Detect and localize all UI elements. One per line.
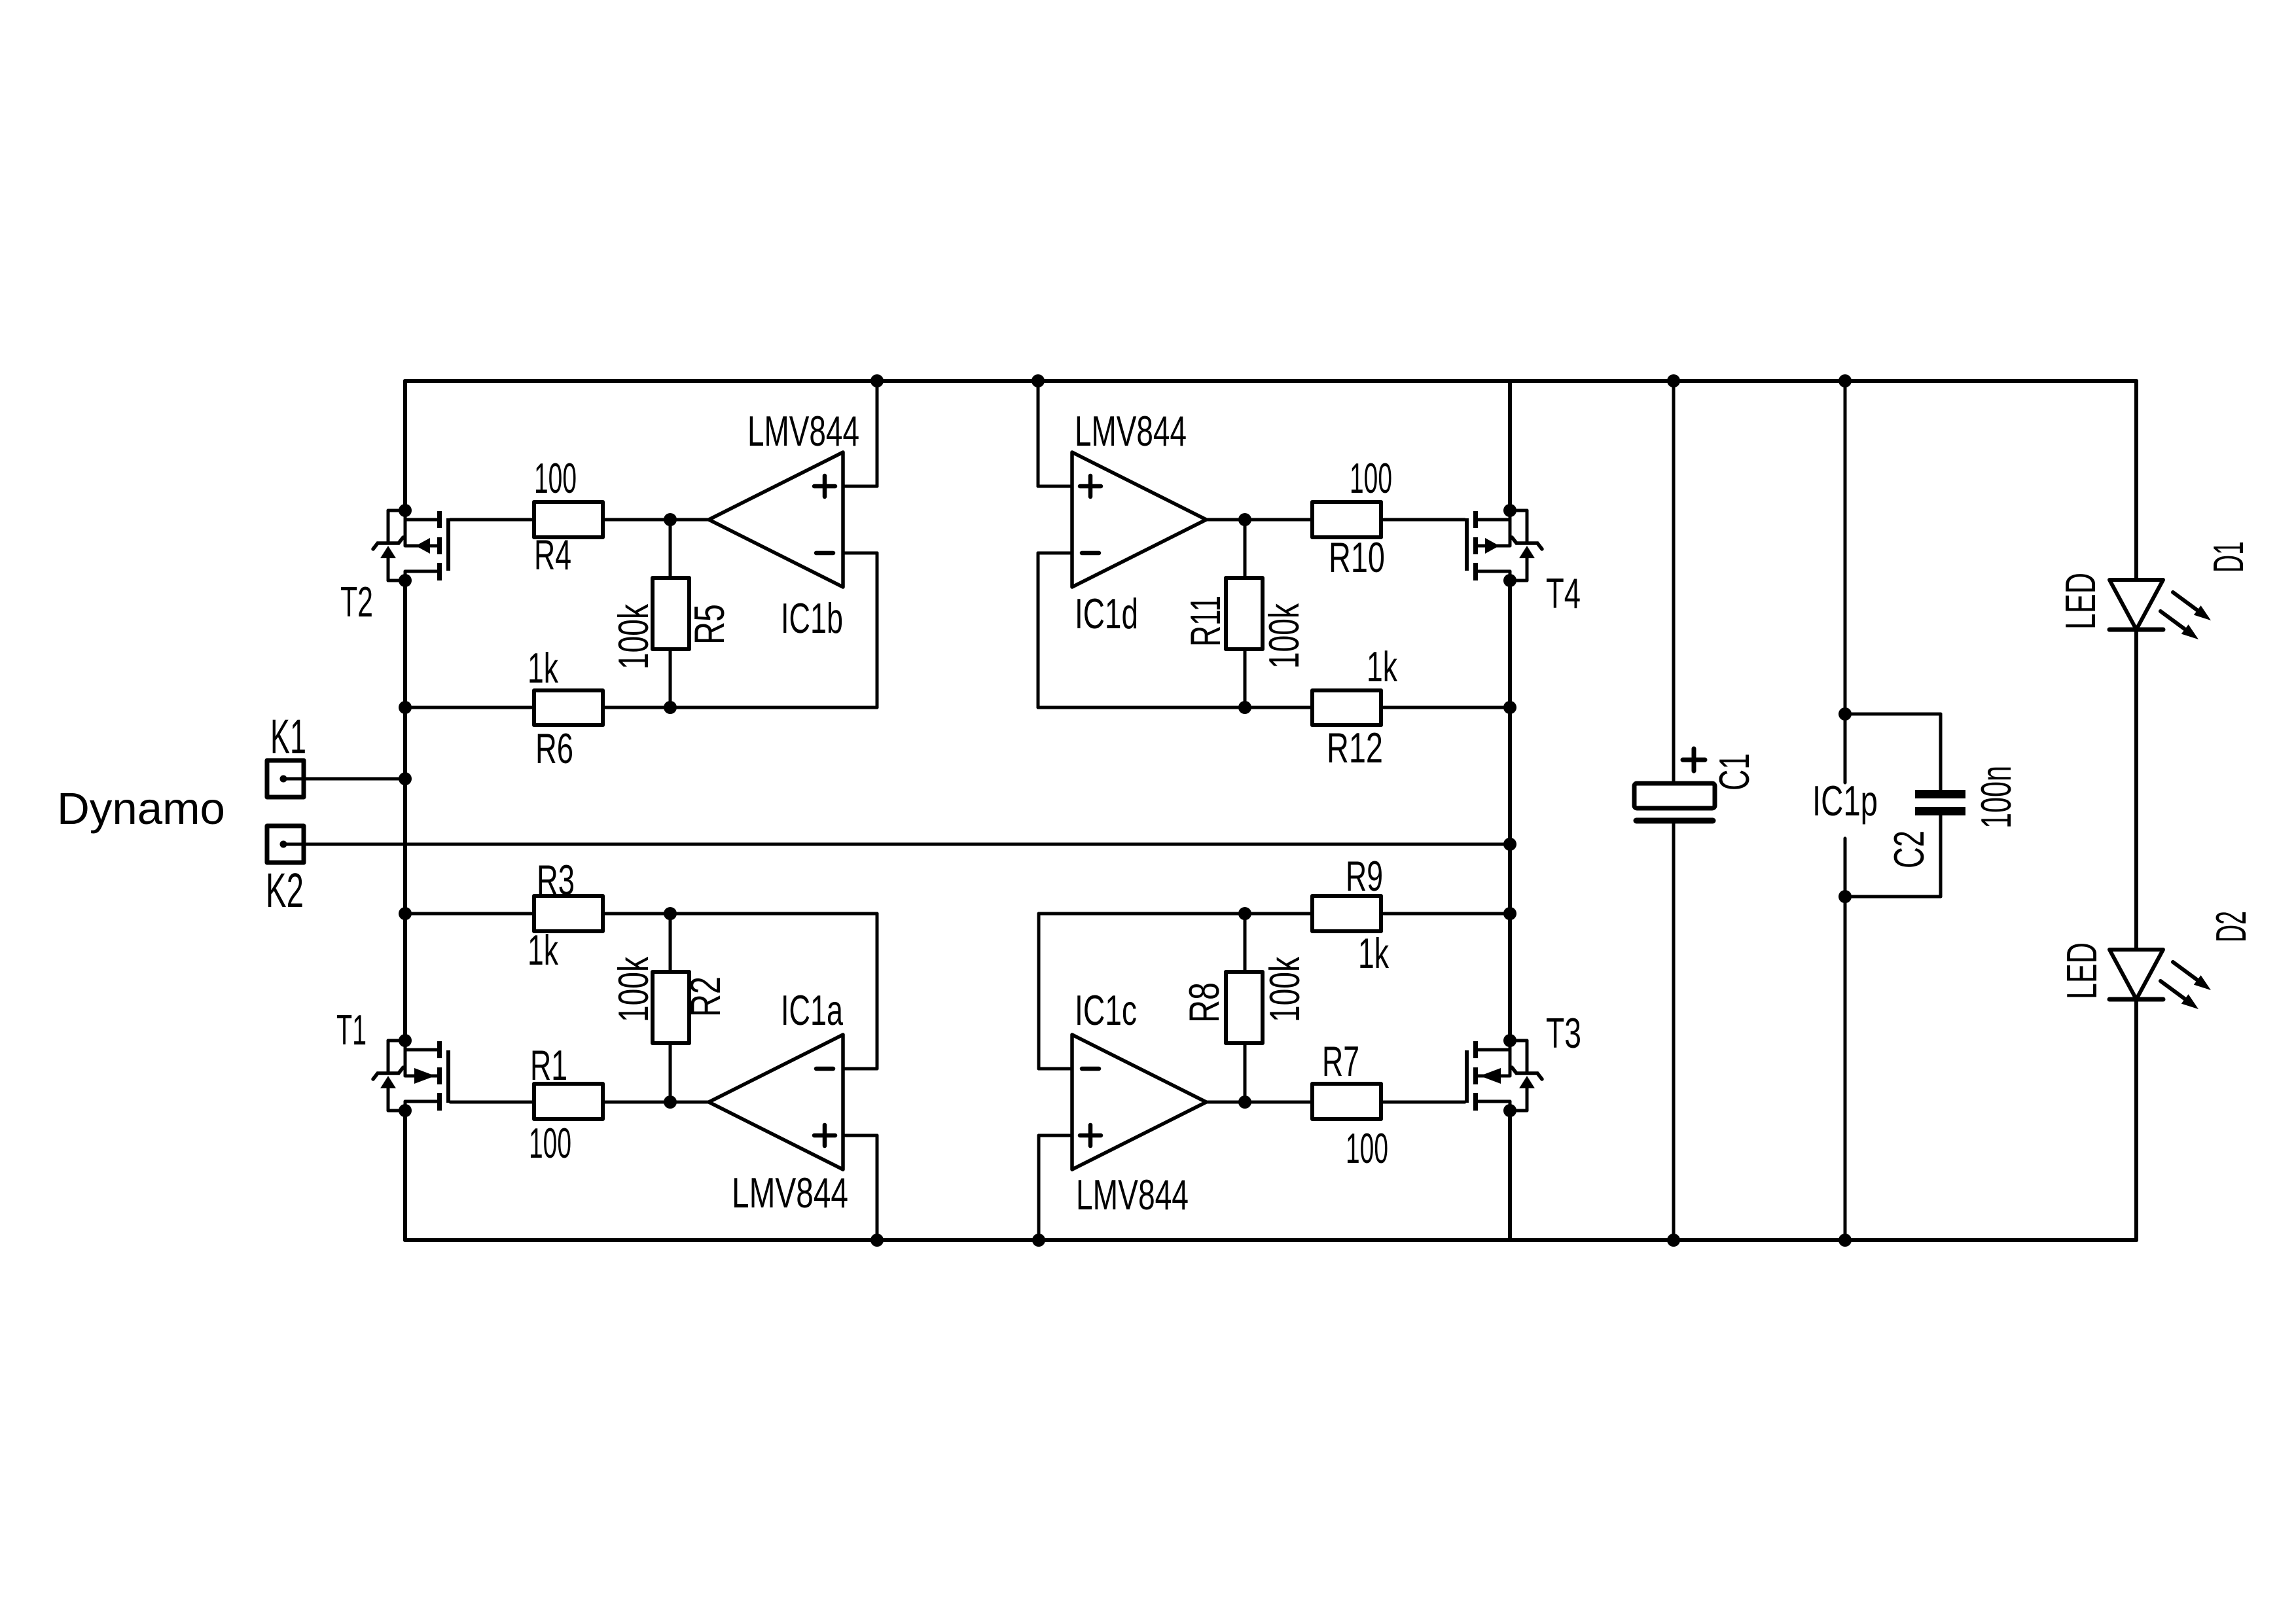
label R12 [1327,724,1383,772]
label R7 value 100 [1346,1124,1388,1172]
label C2 value 100n [1972,766,2020,829]
wire C2 bottom branch [1845,895,1941,899]
label R10 [1329,533,1385,581]
node T4 source dot [1503,574,1516,587]
label D2 [2207,911,2255,942]
svg-text:C1: C1 [1710,753,1758,791]
label R4 [534,531,571,579]
resistor R8 [1226,972,1263,1043]
node T3 drain dot [1503,1034,1516,1047]
wire IC1c inverting to R9 row [1037,914,1041,1069]
label T1 [336,1006,367,1054]
wire IC1a inverting to R3 row [876,914,879,1069]
wire right column middle segment (T4 to T3, AC node K2) [1508,580,1512,1041]
wire IC1c noninverting pin [1039,1134,1072,1137]
node T2 drain dot [399,504,412,517]
wire right column lower segment (T3 to bottom rail) [1508,1111,1512,1240]
svg-text:T3: T3 [1546,1009,1581,1057]
node K2 junction on right column [1503,838,1516,851]
svg-text:IC1c: IC1c [1075,986,1137,1034]
wire R4 to IC1b output [603,518,709,522]
svg-text:LED: LED [2056,573,2104,630]
connector K1 pin dot [280,776,287,783]
node K1 junction on left rail [399,772,412,785]
capacitor C1 positive plate [1634,783,1715,808]
op-amp IC1a plus sign [814,1125,835,1146]
resistor R6 [534,690,603,725]
node IC1b supply junction [870,374,884,387]
svg-text:100k: 100k [1260,603,1308,669]
svg-text:K1: K1 [270,709,306,764]
label R9 [1346,852,1383,900]
label IC1a LMV844 [732,1169,848,1217]
svg-text:R11: R11 [1181,596,1229,647]
node IC1p bottom junction [1839,1234,1852,1247]
wire R10 to T4 gate [1381,518,1465,522]
transistor T1 [373,1041,450,1111]
svg-text:R3: R3 [537,856,575,904]
svg-text:R10: R10 [1329,533,1385,581]
svg-text:T1: T1 [336,1006,367,1054]
svg-text:D1: D1 [2204,541,2252,573]
wire right column upper segment (top rail to T4) [1508,381,1512,510]
svg-text:R6: R6 [535,724,573,772]
wire R5 lower lead [669,649,672,707]
node T1 source dot [399,1104,412,1117]
node C2 top junction [1839,707,1852,721]
wire T1 gate to R1 [450,1101,534,1104]
resistor R4 [534,502,603,537]
svg-text:1k: 1k [1367,643,1397,690]
op-amp IC1a [709,1035,843,1169]
label IC1d [1075,590,1138,637]
LED D2 [2109,950,2211,1009]
label K2 [266,863,304,918]
node R9 junction on right column [1503,907,1516,920]
capacitor C2 lower plate [1915,807,1965,815]
label R3 [537,856,575,904]
op-amp IC1b minus sign [816,551,833,556]
resistor R1 [534,1084,603,1119]
svg-text:100: 100 [529,1119,571,1167]
node R8/R9 junction [1238,907,1251,920]
svg-text:100k: 100k [609,604,657,669]
label IC1p [1812,777,1878,825]
label R7 [1322,1037,1359,1085]
wire R9 to right column [1381,912,1510,916]
svg-text:1k: 1k [1358,929,1389,977]
wire top supply rail [405,379,2136,383]
wire R11 lower lead [1244,649,1247,707]
capacitor C1 negative plate [1636,818,1713,824]
svg-text:LMV844: LMV844 [1075,407,1187,455]
label D1 LED [2056,573,2104,630]
label R1 [530,1041,567,1089]
svg-text:T2: T2 [340,578,373,626]
wire R8 upper lead [1244,914,1247,972]
node R7/R8 junction [1238,1096,1251,1109]
op-amp IC1d minus sign [1082,551,1099,556]
transistor T4 [1465,510,1542,580]
label IC1a [781,986,844,1034]
svg-text:D2: D2 [2207,911,2255,942]
node T1 drain dot [399,1034,412,1047]
wire R8 lower lead [1244,1043,1247,1102]
svg-text:R5: R5 [685,604,733,645]
label R6 value 1k [528,644,558,692]
svg-text:LMV844: LMV844 [732,1169,848,1217]
label R5 [685,604,733,645]
svg-text:1k: 1k [528,644,558,692]
wire IC1d feedback to R12 row [1038,706,1312,709]
op-amp IC1c minus sign [1082,1067,1099,1071]
svg-text:100: 100 [534,454,577,502]
svg-text:100: 100 [1350,454,1392,502]
op-amp IC1b [709,452,843,587]
label R11 value 100k [1260,603,1308,669]
wire IC1c noninverting to bottom rail [1037,1135,1041,1240]
wire IC1d inverting to R12 row [1037,553,1040,707]
wire IC1b inverting to R6 row [876,553,879,707]
label IC1c LMV844 [1076,1171,1189,1219]
node C1 top junction [1667,374,1680,387]
wire C2 top branch [1845,713,1941,716]
connector K2 box [267,826,304,863]
label R12 value 1k [1367,643,1397,690]
node R1/R2 junction [664,1096,677,1109]
op-amp IC1d [1072,452,1206,587]
resistor R7 [1312,1084,1381,1119]
wire IC1p lower segment [1844,838,1847,1240]
svg-text:R4: R4 [534,531,571,579]
label T2 [340,578,373,626]
wire IC1b inverting pin [843,552,877,555]
node T2 source dot [399,574,412,587]
label R2 [681,976,729,1017]
connector K1 box [267,760,304,797]
wire LED chain upper (top rail to D1 anode) [2134,381,2138,580]
label D2 LED [2058,942,2106,999]
resistor R11 [1226,578,1263,649]
wire R12 to right column [1381,706,1510,709]
label D1 [2204,541,2252,573]
wire IC1c inverting pin [1039,1067,1072,1071]
svg-text:IC1p: IC1p [1812,777,1878,825]
LED D1 [2109,580,2211,639]
wire T2 gate to R4 [450,518,534,522]
svg-text:100n: 100n [1972,766,2020,829]
wire left rail lower segment (T1 source to bottom rail) [403,1111,407,1240]
label R4 value 100 [534,454,577,502]
node T3 source dot [1503,1104,1516,1117]
label R1 value 100 [529,1119,571,1167]
label R10 value 100 [1350,454,1392,502]
wire IC1d inverting pin [1038,552,1072,555]
wire IC1b noninverting pin [843,485,877,488]
node C1 bottom junction [1667,1234,1680,1247]
label R8 value 100k [1261,957,1308,1022]
node R2/R3 junction [664,907,677,920]
label C1 [1710,753,1758,791]
node IC1p top junction [1839,374,1852,387]
node R3 junction on left rail [399,907,412,920]
label T4 [1546,569,1581,617]
node C2 bottom junction [1839,890,1852,903]
op-amp IC1c [1072,1035,1206,1169]
wire left rail upper segment (top rail to T2 drain) [403,381,407,510]
resistor R9 [1312,896,1381,931]
node R10/R11 junction [1238,513,1251,526]
svg-text:R12: R12 [1327,724,1383,772]
op-amp IC1d plus sign [1080,476,1101,497]
resistor R12 [1312,690,1381,725]
wire C2 upper lead [1939,714,1943,790]
op-amp IC1c plus sign [1080,1125,1101,1146]
wire K2 to right column [283,843,1510,846]
node R5/R6 junction [664,701,677,714]
svg-text:LMV844: LMV844 [1076,1171,1189,1219]
wire R7 to T3 gate [1381,1101,1465,1104]
svg-text:LMV844: LMV844 [747,407,859,455]
label R3 value 1k [528,926,558,974]
label Dynamo [57,783,225,834]
label R8 [1180,982,1228,1023]
svg-text:100k: 100k [1261,957,1308,1022]
wire left rail to R6 [405,706,534,709]
capacitor C2 upper plate [1915,790,1965,798]
label R9 value 1k [1358,929,1389,977]
label C2 [1885,830,1933,868]
wire IC1a inverting pin [843,1067,877,1071]
wire C2 lower lead [1939,815,1943,897]
resistor R3 [534,896,603,931]
svg-text:R1: R1 [530,1041,567,1089]
label T3 [1546,1009,1581,1057]
resistor R2 [653,972,689,1043]
node IC1c supply junction [1032,1234,1045,1247]
label K1 [270,709,306,764]
resistor R5 [653,578,689,649]
label R5 value 100k [609,604,657,669]
wire left rail middle segment (T2 source to T1 drain, AC node K1) [403,580,407,1041]
wire IC1b noninverting to top rail [876,381,879,486]
svg-text:R8: R8 [1180,982,1228,1023]
svg-text:R7: R7 [1322,1037,1359,1085]
wire IC1d noninverting to top rail [1037,381,1040,486]
label IC1c [1075,986,1137,1034]
transistor T2 [373,510,450,580]
wire IC1a noninverting pin [843,1134,877,1137]
wire R5 upper lead [669,520,672,578]
label IC1b LMV844 [747,407,859,455]
wire C1 negative lead [1672,821,1676,1240]
wire left rail to R3 [405,912,534,916]
label R2 value 100k [609,957,657,1022]
wire IC1p upper segment [1844,381,1847,783]
wire R3 to IC1a feedback corner [603,912,877,916]
wire IC1a noninverting to bottom rail [876,1135,879,1240]
svg-text:K2: K2 [266,863,304,918]
label IC1d LMV844 [1075,407,1187,455]
wire LED chain lower (D2 cathode to bottom rail) [2134,999,2138,1240]
svg-text:IC1b: IC1b [781,594,843,642]
wire R11 upper lead [1244,520,1247,578]
wire K1 to left rail [283,777,405,781]
wire IC1d noninverting pin [1038,485,1072,488]
svg-text:R2: R2 [681,976,729,1017]
node R4/R5 junction [664,513,677,526]
wire IC1c feedback to R9 row [1039,912,1312,916]
node R12 junction on right column [1503,701,1516,714]
label C1 plus sign [1683,749,1705,771]
op-amp IC1b plus sign [814,476,835,497]
svg-text:T4: T4 [1546,569,1581,617]
transistor T3 [1465,1041,1542,1111]
wire bottom supply rail [405,1238,2136,1242]
resistor R10 [1312,502,1381,537]
svg-text:IC1d: IC1d [1075,590,1138,637]
node R6 junction on left rail [399,701,412,714]
node R11/R12 junction [1238,701,1251,714]
svg-text:R9: R9 [1346,852,1383,900]
svg-text:C2: C2 [1885,830,1933,868]
svg-text:1k: 1k [528,926,558,974]
svg-text:100k: 100k [609,957,657,1022]
label IC1b [781,594,843,642]
wire IC1c output to R7 [1206,1101,1312,1104]
connector K2 pin dot [280,841,287,848]
wire R2 lower lead [669,1043,672,1102]
op-amp IC1a minus sign [816,1067,833,1071]
wire R1 to IC1a output [603,1101,709,1104]
label R11 [1181,596,1229,647]
node IC1a supply junction [870,1234,884,1247]
wire IC1d output to R10 [1206,518,1312,522]
node T4 drain dot [1503,504,1516,517]
node IC1d supply junction [1031,374,1045,387]
wire LED chain middle (D1 cathode to D2 anode) [2134,630,2138,950]
svg-text:Dynamo: Dynamo [57,783,225,834]
wire C1 positive lead [1672,381,1676,783]
label R6 [535,724,573,772]
wire R6 to IC1b feedback corner [603,706,877,709]
wire R2 upper lead [669,914,672,972]
svg-text:100: 100 [1346,1124,1388,1172]
svg-text:LED: LED [2058,942,2106,999]
svg-text:IC1a: IC1a [781,986,844,1034]
